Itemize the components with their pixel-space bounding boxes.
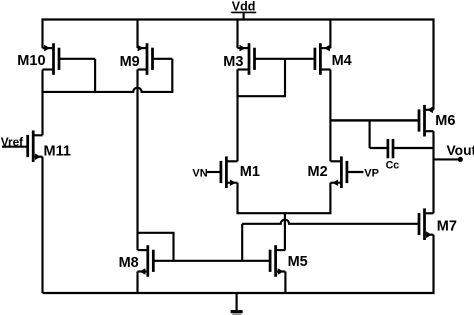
wire M8 gate to M5 gate (154, 260, 271, 262)
wire M3 drain to M1 drain (236, 70, 238, 162)
svg-text:M7: M7 (437, 218, 457, 234)
ground rail and M7 source (43, 235, 434, 293)
transistor M10 (43, 43, 96, 75)
wire gate bus with hop over M9 drain (43, 88, 173, 92)
label M5 (288, 254, 308, 270)
transistor M11 (28, 130, 43, 162)
label VP (364, 168, 379, 180)
svg-text:Vdd: Vdd (232, 0, 256, 14)
wire left rail M11 source to ground rail (41, 157, 43, 293)
transistor M7 (419, 208, 434, 240)
label Vout (447, 143, 474, 158)
svg-text:Cc: Cc (386, 160, 400, 172)
wire bias drop to mirror gates (241, 224, 243, 261)
wire Cc right lead to output (394, 147, 433, 149)
node first-stage output to M6 gate (330, 119, 419, 121)
transistor M2 (330, 156, 363, 188)
wire ground stem (236, 293, 238, 311)
label M7 (437, 218, 457, 234)
ground symbol lower bar (232, 313, 241, 315)
wire Vdd to M4 source (329, 20, 331, 49)
wire output stub (434, 158, 459, 160)
Vdd label (231, 0, 256, 14)
wire Cc left lead (370, 147, 387, 149)
label Cc (386, 160, 400, 172)
transistor M4 (315, 43, 331, 75)
label VN (192, 167, 207, 179)
svg-text:M5: M5 (288, 254, 308, 270)
svg-text:VP: VP (364, 168, 379, 180)
wire Vdd to M9 source (136, 20, 138, 49)
transistor M9 (138, 43, 173, 75)
wire M3 diode connection (238, 59, 286, 96)
svg-text:M10: M10 (17, 53, 45, 69)
svg-text:M8: M8 (119, 255, 139, 271)
Vdd tick wire (243, 12, 245, 20)
label Vref (1, 135, 23, 149)
transistor M5 (270, 245, 285, 277)
wire tail to M5 drain (284, 213, 286, 250)
svg-text:VN: VN (192, 167, 207, 179)
wire M9 gate drop (171, 59, 172, 92)
label M9 (120, 54, 140, 70)
wire M8 source to ground (136, 272, 138, 294)
label M8 (119, 255, 139, 271)
label M11 (44, 144, 71, 160)
transistor M3 (238, 43, 255, 75)
wire Vdd to M3 source (236, 20, 238, 49)
svg-text:M11: M11 (44, 144, 71, 160)
svg-text:M1: M1 (240, 164, 260, 180)
label M10 (17, 53, 45, 69)
wire Vref lead (2, 146, 28, 148)
label M6 (435, 113, 455, 129)
wire left rail M10 drain to M11 drain (41, 70, 43, 136)
Vdd top rail and side rails (43, 20, 434, 110)
svg-text:M9: M9 (120, 54, 140, 70)
wire M4 drain to M2 drain (329, 70, 331, 162)
svg-text:M3: M3 (223, 54, 243, 70)
wire M6 drain to M7 drain (432, 131, 434, 213)
wire M3 gate to M4 gate (255, 58, 315, 60)
svg-text:M4: M4 (332, 53, 352, 69)
wire M6 gate node down to Cc (369, 120, 371, 148)
wire M10 gate drop (94, 59, 96, 93)
svg-text:Vout: Vout (447, 143, 474, 158)
label M1 (240, 164, 260, 180)
wire tail node (238, 183, 331, 214)
capacitor Cc plates (388, 139, 393, 158)
wire M8 diode connection (138, 233, 174, 261)
transistor M1 (207, 156, 238, 188)
svg-text:M6: M6 (435, 113, 455, 129)
wire bias line with hop to M7 gate (242, 220, 418, 224)
svg-text:M2: M2 (308, 164, 328, 180)
wire M5 source to ground (284, 272, 286, 294)
label M3 (223, 54, 243, 70)
wire M9 drain down to M8 drain (136, 70, 138, 251)
label M4 (332, 53, 352, 69)
transistor M8 (138, 245, 154, 277)
ground symbol bar (231, 310, 243, 313)
label M2 (308, 164, 328, 180)
transistor M6 (330, 105, 433, 137)
node Vout terminal (458, 157, 463, 162)
